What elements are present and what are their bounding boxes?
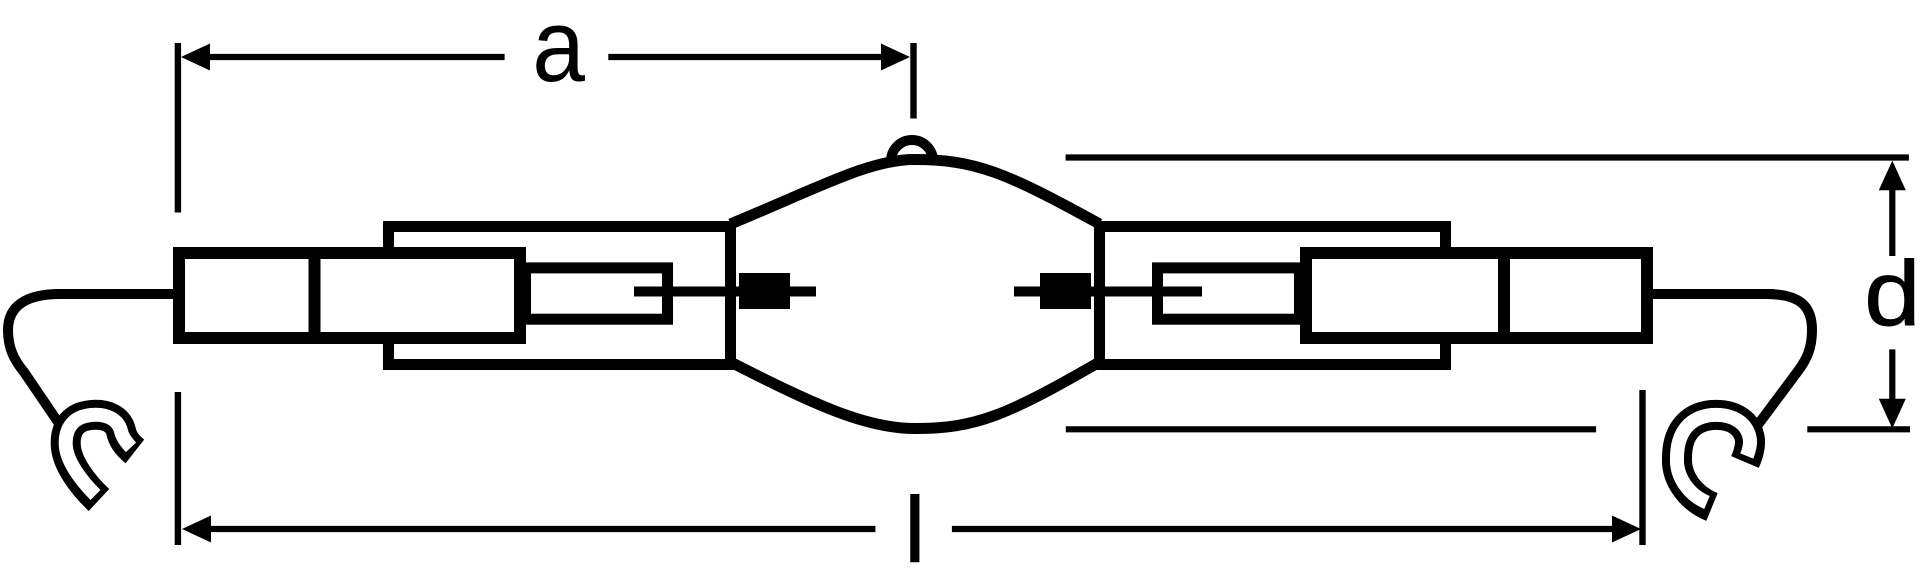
left pinch — [725, 221, 736, 370]
svg-text:l: l — [905, 478, 926, 582]
bulb upper outline — [731, 160, 1100, 225]
svg-text:d: d — [1864, 242, 1920, 345]
right cable hook — [1677, 415, 1750, 507]
bulb lower outline — [731, 362, 1100, 429]
dimension d down arrowhead — [1879, 399, 1906, 429]
bulb nipple — [891, 140, 933, 161]
right base sleeve — [1100, 227, 1446, 365]
left contact rect — [526, 268, 668, 319]
right cable bend — [1757, 294, 1812, 426]
dimension a left tick — [175, 43, 181, 213]
right ceramic base block — [1306, 253, 1647, 338]
dimension a left arrowhead — [181, 44, 210, 71]
dimension l left tick — [175, 392, 181, 545]
dimension a right tick — [910, 43, 916, 119]
left ceramic base block — [179, 253, 520, 338]
dimension a line left segment — [205, 54, 505, 60]
right contact rect — [1158, 268, 1300, 319]
dimension d up arrowhead — [1879, 161, 1906, 191]
dimension d bottom reference line left segment — [1066, 426, 1596, 432]
dimension a line right segment — [608, 54, 886, 60]
left base sleeve — [389, 227, 731, 365]
left cable bend — [8, 294, 60, 422]
right lead wire — [1648, 289, 1774, 299]
svg-text:a: a — [532, 0, 586, 103]
left electrode wire — [634, 287, 816, 297]
dimension d vertical line upper segment — [1889, 185, 1895, 256]
dimension l line right segment — [952, 526, 1617, 532]
left base divider — [309, 247, 321, 344]
right electrode wire — [1014, 287, 1202, 297]
left lead wire — [55, 289, 173, 299]
right electrode — [1040, 273, 1091, 309]
right pinch — [1094, 221, 1105, 370]
dimension a right arrowhead — [881, 44, 910, 71]
dimension l left arrowhead — [182, 516, 211, 543]
dimension l right tick — [1639, 390, 1645, 545]
dimension d vertical line lower segment — [1889, 349, 1895, 403]
dimension l line left segment — [206, 526, 875, 532]
dimension d bottom reference line right segment — [1807, 426, 1910, 432]
left electrode — [739, 273, 790, 309]
right base divider — [1498, 247, 1510, 344]
dimension l right arrowhead — [1612, 516, 1641, 543]
left cable hook — [66, 415, 135, 500]
dimension d top reference line — [1066, 154, 1909, 160]
